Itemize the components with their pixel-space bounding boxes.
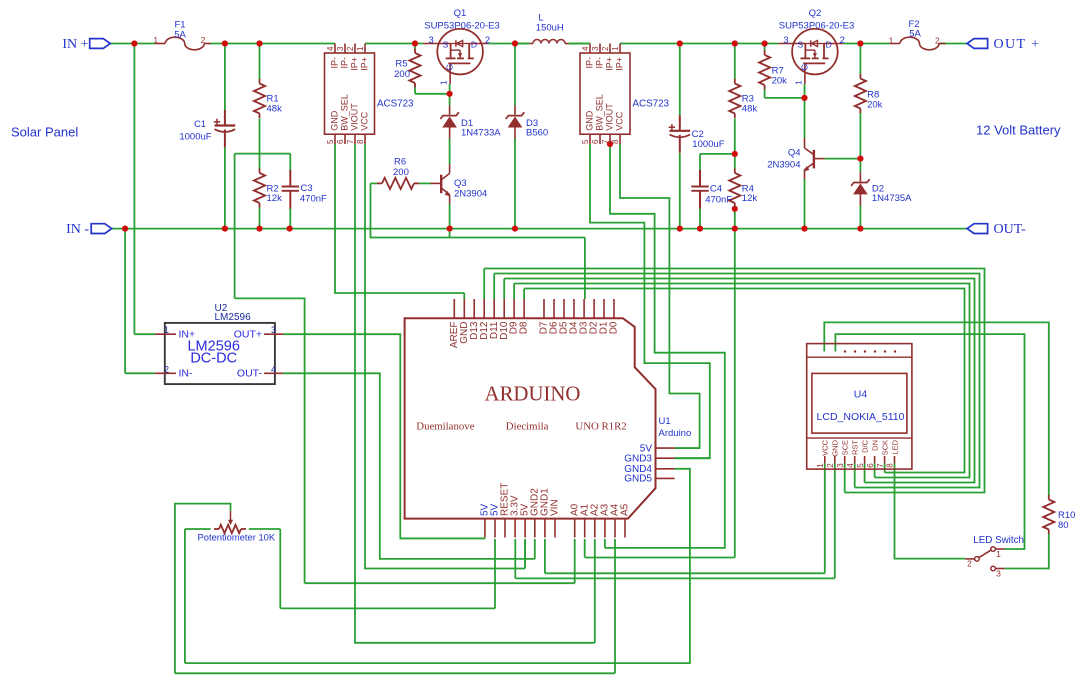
- svg-text:1N4733A: 1N4733A: [461, 128, 501, 139]
- svg-text:C4: C4: [710, 183, 722, 194]
- svg-text:R6: R6: [394, 157, 406, 168]
- svg-text:C1: C1: [194, 119, 206, 130]
- svg-text:D8: D8: [519, 321, 530, 334]
- svg-text:8: 8: [356, 139, 365, 144]
- svg-text:6: 6: [866, 463, 875, 468]
- svg-text:4: 4: [326, 46, 335, 51]
- svg-text:G: G: [799, 64, 809, 71]
- svg-text:R5: R5: [395, 58, 407, 69]
- svg-text:D/C: D/C: [860, 439, 869, 453]
- svg-text:BW_SEL: BW_SEL: [595, 94, 605, 131]
- svg-text:ACS723: ACS723: [633, 99, 670, 110]
- svg-text:SUP53P06-20-E3: SUP53P06-20-E3: [424, 21, 500, 32]
- svg-text:Solar Panel: Solar Panel: [11, 125, 78, 140]
- svg-text:LCD_NOKIA_5110: LCD_NOKIA_5110: [817, 411, 905, 423]
- svg-text:VIOUT: VIOUT: [605, 103, 615, 131]
- svg-text:3: 3: [429, 35, 434, 46]
- svg-text:4: 4: [581, 46, 590, 51]
- svg-text:Potentiometer 10K: Potentiometer 10K: [198, 532, 276, 543]
- svg-text:12 Volt Battery: 12 Volt Battery: [976, 123, 1061, 138]
- svg-text:S: S: [443, 39, 449, 49]
- svg-text:LED Switch: LED Switch: [973, 535, 1024, 546]
- svg-text:GND5: GND5: [624, 474, 652, 485]
- svg-text:B560: B560: [526, 128, 548, 139]
- svg-text:IP-: IP-: [585, 57, 595, 69]
- svg-text:Arduino: Arduino: [659, 428, 692, 439]
- svg-text:IP+: IP+: [605, 57, 615, 71]
- svg-text:1000uF: 1000uF: [692, 139, 724, 150]
- svg-text:VCC: VCC: [821, 439, 830, 455]
- svg-text:OUT +: OUT +: [994, 37, 1041, 52]
- svg-text:SCK: SCK: [880, 440, 889, 455]
- svg-text:IP-: IP-: [340, 57, 350, 69]
- svg-text:VIN: VIN: [550, 499, 561, 516]
- svg-text:Q4: Q4: [788, 148, 801, 159]
- svg-text:1: 1: [889, 35, 894, 45]
- svg-text:4: 4: [846, 463, 855, 468]
- svg-text:LM2596: LM2596: [215, 312, 252, 323]
- svg-text:470nF: 470nF: [300, 193, 327, 204]
- svg-text:12k: 12k: [267, 193, 283, 204]
- svg-text:3: 3: [271, 325, 276, 335]
- svg-text:DC-DC: DC-DC: [190, 351, 237, 367]
- svg-text:ACS723: ACS723: [377, 99, 414, 110]
- svg-text:3: 3: [591, 46, 600, 51]
- svg-text:80: 80: [1058, 520, 1069, 531]
- svg-text:GND: GND: [831, 439, 840, 456]
- svg-text:U4: U4: [854, 389, 868, 401]
- svg-text:GND: GND: [330, 110, 340, 131]
- svg-text:IP-: IP-: [595, 57, 605, 69]
- svg-text:5: 5: [581, 139, 590, 144]
- svg-text:RST: RST: [851, 440, 860, 455]
- svg-text:8: 8: [886, 463, 895, 468]
- svg-text:48k: 48k: [267, 104, 283, 115]
- svg-text:5: 5: [326, 139, 335, 144]
- svg-text:1: 1: [439, 80, 449, 85]
- svg-text:UNO R1R2: UNO R1R2: [575, 421, 626, 433]
- svg-text:1: 1: [153, 35, 158, 45]
- svg-text:7: 7: [876, 463, 885, 468]
- svg-text:7: 7: [601, 139, 610, 144]
- svg-text:470nF: 470nF: [705, 195, 732, 206]
- svg-text:D: D: [826, 39, 832, 49]
- svg-text:U1: U1: [659, 416, 671, 427]
- svg-text:1: 1: [356, 46, 365, 51]
- svg-text:2: 2: [840, 35, 845, 46]
- svg-text:2: 2: [346, 46, 355, 51]
- svg-text:S: S: [797, 39, 803, 49]
- svg-text:20k: 20k: [867, 100, 883, 111]
- svg-text:VIOUT: VIOUT: [350, 103, 360, 131]
- svg-text:200: 200: [393, 167, 409, 178]
- svg-text:GND: GND: [585, 110, 595, 131]
- svg-text:Q2: Q2: [809, 8, 822, 19]
- svg-text:IN-: IN-: [179, 368, 194, 380]
- svg-text:8: 8: [611, 139, 620, 144]
- svg-text:SUP53P06-20-E3: SUP53P06-20-E3: [779, 21, 855, 32]
- svg-text:1000uF: 1000uF: [179, 131, 211, 142]
- svg-text:12k: 12k: [742, 193, 758, 204]
- svg-text:3: 3: [783, 35, 788, 46]
- svg-text:IP+: IP+: [360, 57, 370, 71]
- svg-text:VCC: VCC: [360, 111, 370, 131]
- svg-text:Q3: Q3: [454, 178, 467, 189]
- svg-text:IP+: IP+: [615, 57, 625, 71]
- svg-text:5A: 5A: [909, 29, 921, 40]
- svg-text:7: 7: [346, 139, 355, 144]
- svg-text:DN: DN: [870, 440, 879, 451]
- svg-text:Diecimila: Diecimila: [506, 421, 549, 433]
- svg-text:A5: A5: [620, 503, 631, 516]
- svg-text:LED: LED: [890, 439, 899, 454]
- svg-text:6: 6: [336, 139, 345, 144]
- svg-text:G: G: [445, 64, 455, 71]
- svg-text:2: 2: [201, 35, 206, 45]
- svg-text:48k: 48k: [742, 104, 758, 115]
- svg-text:2: 2: [935, 35, 940, 45]
- svg-text:3: 3: [836, 463, 845, 468]
- svg-text:IN +: IN +: [62, 37, 88, 52]
- svg-text:1: 1: [793, 80, 803, 85]
- svg-text:2: 2: [601, 46, 610, 51]
- svg-text:1N4735A: 1N4735A: [872, 193, 912, 204]
- svg-text:OUT-: OUT-: [237, 368, 263, 380]
- svg-text:2N3904: 2N3904: [454, 189, 487, 200]
- svg-text:2: 2: [485, 35, 490, 46]
- svg-text:2: 2: [826, 463, 835, 468]
- svg-text:VCC: VCC: [615, 111, 625, 131]
- svg-text:SCE: SCE: [841, 440, 850, 455]
- svg-text:1: 1: [816, 463, 825, 468]
- svg-text:150uH: 150uH: [536, 22, 564, 33]
- svg-text:2: 2: [967, 559, 972, 569]
- svg-text:5A: 5A: [174, 29, 186, 40]
- svg-text:Q1: Q1: [454, 8, 467, 19]
- svg-text:3: 3: [996, 569, 1001, 579]
- svg-text:2N3904: 2N3904: [767, 160, 800, 171]
- svg-text:IN -: IN -: [66, 222, 89, 237]
- svg-text:20k: 20k: [772, 76, 788, 87]
- svg-text:D: D: [471, 39, 477, 49]
- svg-text:D0: D0: [609, 321, 620, 334]
- svg-text:IP+: IP+: [350, 57, 360, 71]
- svg-text:IP-: IP-: [330, 57, 340, 69]
- svg-text:BW_SEL: BW_SEL: [340, 94, 350, 131]
- svg-text:3: 3: [336, 46, 345, 51]
- svg-text:2: 2: [164, 364, 169, 374]
- svg-text:ARDUINO: ARDUINO: [485, 383, 581, 406]
- svg-text:1: 1: [164, 325, 169, 335]
- svg-text:GND3: GND3: [624, 454, 652, 465]
- svg-text:6: 6: [591, 139, 600, 144]
- svg-text:4: 4: [271, 364, 276, 374]
- svg-text:1: 1: [611, 46, 620, 51]
- svg-text:5: 5: [856, 463, 865, 468]
- svg-text:1: 1: [996, 549, 1001, 559]
- svg-text:OUT-: OUT-: [994, 222, 1026, 237]
- svg-text:200: 200: [394, 69, 410, 80]
- svg-text:Duemilanove: Duemilanove: [416, 421, 474, 433]
